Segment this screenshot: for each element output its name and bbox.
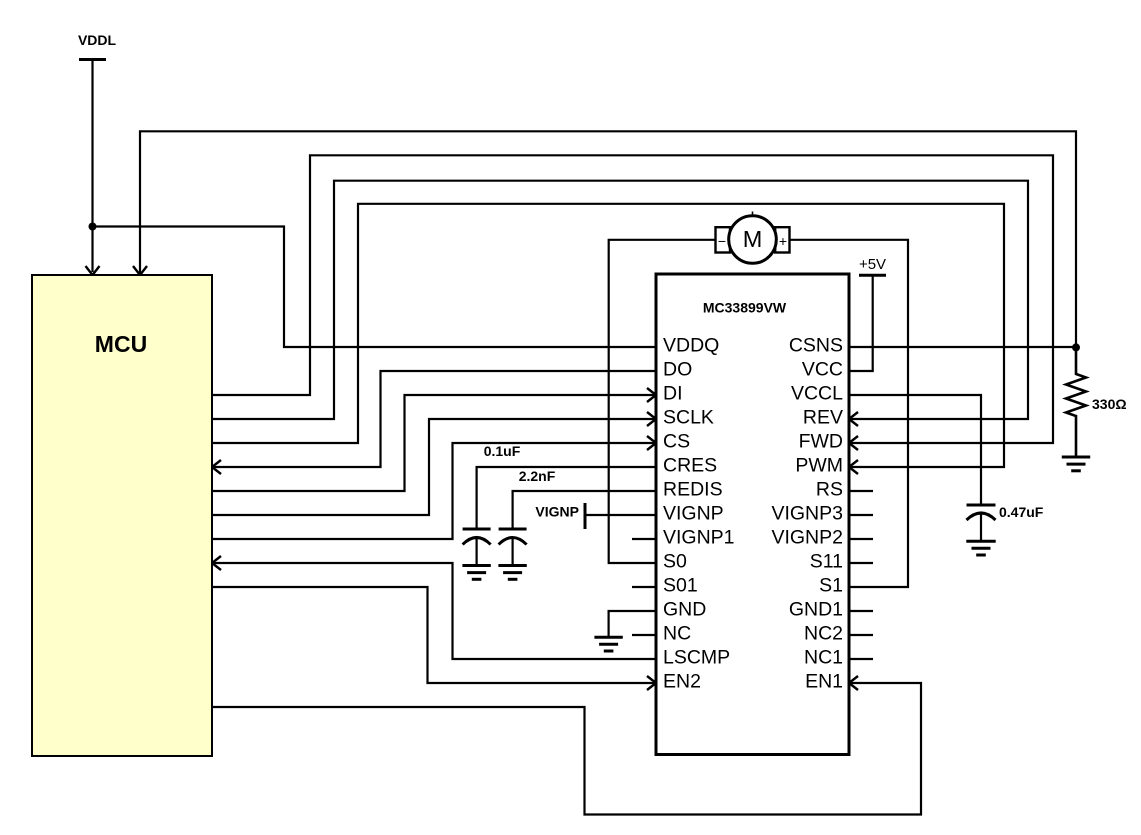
capacitor C1 curved plate [463,538,491,545]
capacitor C2 top plate [499,528,527,531]
arrow into DI pin [647,388,656,402]
svg-text:S1: S1 [819,575,843,597]
svg-text:FWD: FWD [799,431,843,453]
svg-text:REDIS: REDIS [663,479,723,501]
wire LSCMP pin to MCU [212,563,656,659]
svg-text:VCCL: VCCL [791,383,843,405]
pin stub VIGNP1 [632,538,656,540]
svg-text:VIGNP3: VIGNP3 [771,503,843,525]
svg-text:RS: RS [816,479,843,501]
svg-text:NC: NC [663,623,691,645]
VIGNP tap bar [584,503,587,529]
arrow into EN2 pin [647,676,656,690]
svg-text:DI: DI [663,383,683,405]
wire VDDL junction to VDDQ pin [93,227,657,348]
ground at GND pin [594,637,622,651]
svg-text:VDDL: VDDL [78,32,117,48]
motor M1 left terminal [716,227,731,252]
wire motor right to S1 [790,240,909,587]
capacitor C3 curved plate [967,513,996,520]
svg-text:0.1uF: 0.1uF [484,443,521,459]
wire S0 to motor left [609,240,716,563]
svg-text:LSCMP: LSCMP [663,647,730,669]
arrow into REV pin [849,412,858,426]
wire +5V to VCC pin [849,275,873,371]
arrow into MCU at DO net [212,460,221,474]
svg-text:REV: REV [803,407,843,429]
arrow into CS pin [647,436,656,450]
svg-text:2.2nF: 2.2nF [519,468,556,484]
wire C1 to ground [476,539,478,566]
wire VIGNP tap to pin [585,514,656,516]
svg-text:VIGNP: VIGNP [663,503,724,525]
svg-text:CS: CS [663,431,690,453]
svg-text:+: + [779,233,787,249]
wire VDDL to MCU pin (vertical) [91,60,93,273]
capacitor C1 top plate [463,528,491,531]
wire CSNS pin to node [849,346,1076,348]
arrow into FWD pin [849,436,858,450]
wire VCCL pin to capacitor C3 [849,395,981,505]
ground under C1 [462,566,490,580]
svg-text:M: M [743,226,763,252]
svg-text:GND: GND [663,599,706,621]
wire CRES pin to capacitor C1 [477,467,656,529]
pin stub NC2 [849,634,873,636]
svg-text:MCU: MCU [95,331,147,357]
capacitor C2 curved plate [499,538,527,545]
wire REV net: MCU to top rail [212,181,1028,419]
wire C3 to ground [980,514,982,541]
node junction CSNS/resistor [1072,343,1080,351]
wire MCU to SCLK pin [212,419,656,515]
pin stub VIGNP2 [849,538,873,540]
wire PWM net: MCU to top rail [212,204,1004,467]
svg-text:330Ω: 330Ω [1092,396,1127,412]
wire DO pin to MCU [212,371,656,467]
svg-text:0.47uF: 0.47uF [999,504,1044,520]
svg-text:VDDQ: VDDQ [663,335,719,357]
svg-text:CRES: CRES [663,455,717,477]
svg-text:CSNS: CSNS [789,335,843,357]
svg-text:VIGNP1: VIGNP1 [663,527,735,549]
svg-text:VIGNP: VIGNP [535,504,579,520]
svg-text:EN2: EN2 [663,671,701,693]
pin stub GND1 [849,610,873,612]
wire REDIS pin to capacitor C2 [513,491,656,529]
wire MCU to CS pin [212,443,656,539]
motor brush tick [752,212,754,217]
ground under C3 [966,541,995,555]
arrow into SCLK pin [647,412,656,426]
power VDDL rail bar [79,58,106,61]
svg-text:MC33899VW: MC33899VW [703,300,787,316]
pin stub S01 [632,586,656,588]
svg-text:PWM: PWM [795,455,843,477]
svg-text:−: − [718,233,726,249]
svg-text:S01: S01 [663,575,698,597]
pin stub NC [632,634,656,636]
svg-text:EN1: EN1 [805,671,843,693]
MCU block [32,275,212,756]
pin stub NC1 [849,658,873,660]
svg-text:VIGNP2: VIGNP2 [771,527,843,549]
svg-text:S0: S0 [663,551,687,573]
wire CSNS net: MCU top to resistor top [140,131,1076,347]
wire FWD net: MCU to top rail [212,155,1053,443]
svg-text:GND1: GND1 [789,599,843,621]
motor M1 right terminal [775,227,789,252]
IC U1 MC33899VW body [656,274,849,755]
ground under C2 [498,566,526,580]
svg-text:NC1: NC1 [804,647,843,669]
svg-text:+5V: +5V [859,256,886,273]
svg-text:SCLK: SCLK [663,407,714,429]
ground under R1 [1062,457,1090,471]
svg-text:VCC: VCC [802,359,843,381]
svg-text:S11: S11 [810,551,843,573]
svg-text:NC2: NC2 [804,623,843,645]
motor M1 body circle [729,216,777,264]
node junction on VDDL wire [89,223,97,231]
svg-text:DO: DO [663,359,692,381]
arrow into EN1 pin [849,676,858,690]
pin stub VIGNP3 [849,514,873,516]
power +5V rail bar [859,274,886,277]
pin stub S11 [849,562,873,564]
wire MCU to DI pin [212,395,656,491]
arrow into MCU at LSCMP net [212,556,221,570]
pin stub RS [849,490,873,492]
resistor R1 330ohm [1066,347,1086,456]
wire C2 to ground [511,539,513,566]
arrow into MCU top at x=140 [133,266,147,275]
arrow into MCU top at x=92.5 [86,266,100,275]
wire MCU to EN2 pin [212,587,656,683]
capacitor C3 top plate [967,504,996,507]
wire EN1 pin to MCU bottom route [212,683,921,815]
arrow into PWM pin [849,460,858,474]
wire GND pin to ground [609,611,656,637]
